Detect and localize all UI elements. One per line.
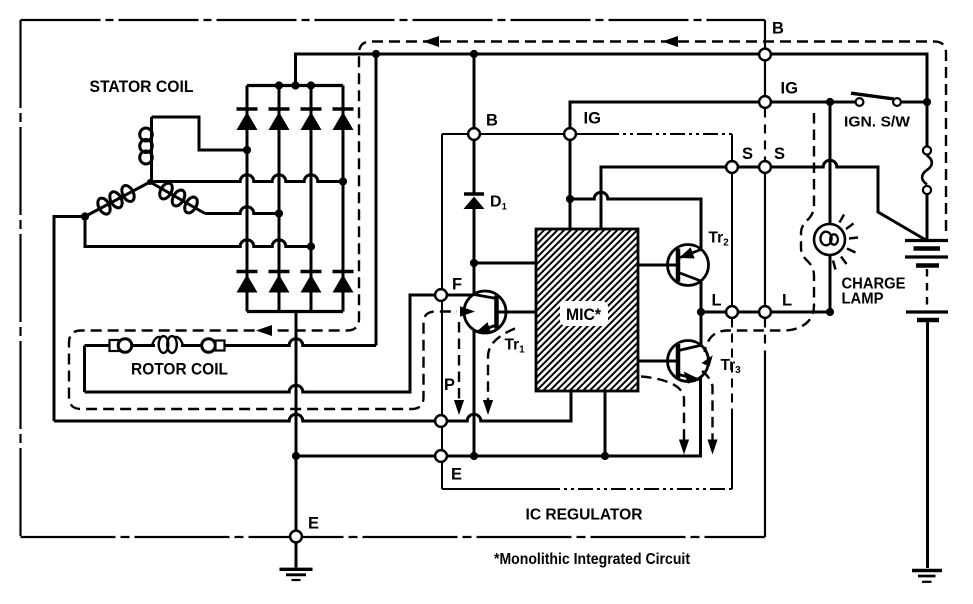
dashed lamp current through Tr3 (right branch) xyxy=(702,371,713,440)
MIC hybrid IC block U1 xyxy=(536,229,638,391)
junction MIC / E line xyxy=(601,452,609,460)
rectifier diode bottom column 4 xyxy=(333,272,354,293)
rectifier column 2 wire xyxy=(278,86,281,312)
rectifier diode top column 2 xyxy=(269,109,290,130)
wire Tr3 base to MIC xyxy=(638,360,676,363)
terminal IG (alternator) xyxy=(759,96,771,108)
junction B line / regulator B xyxy=(470,50,478,58)
junction rectifier bus col3 xyxy=(307,81,315,89)
wire Tr1 emitter to E line xyxy=(473,331,476,456)
charge lamp rays xyxy=(833,215,858,270)
rectifier diode top column 1 xyxy=(237,109,258,130)
junction B line / rotor feed xyxy=(372,50,380,58)
dashed lamp current path around charge lamp to Tr3 xyxy=(705,113,815,352)
charge lamp wire from IG junction xyxy=(829,102,832,224)
svg-text:MIC*: MIC* xyxy=(566,306,602,324)
junction rectifier bus output xyxy=(291,81,299,89)
rotor bottom wire to F terminal (hops over E drop) xyxy=(85,295,435,392)
svg-text:ROTOR COIL: ROTOR COIL xyxy=(131,360,228,379)
wire P line (hops over E drop and Tr1 emitter) xyxy=(54,391,571,421)
svg-text:*Monolithic Integrated Circuit: *Monolithic Integrated Circuit xyxy=(494,551,691,568)
node stator Y-center xyxy=(147,179,153,185)
svg-text:IC REGULATOR: IC REGULATOR xyxy=(526,507,643,524)
junction D1 / MIC pin xyxy=(470,259,478,267)
junction rectifier bus col2 xyxy=(275,81,283,89)
flow arrow to E line (left) xyxy=(679,440,689,455)
battery lower cell xyxy=(906,312,948,320)
terminal P (regulator) xyxy=(435,415,447,427)
transistor Tr3 xyxy=(668,341,709,383)
stator coil phase C (right winding) xyxy=(150,181,205,215)
transistor Tr2 xyxy=(668,245,709,286)
flow arrow down to P line (left) xyxy=(454,400,464,415)
fuse xyxy=(922,146,932,194)
svg-text:E: E xyxy=(308,515,319,533)
svg-text:L: L xyxy=(712,292,722,310)
dashed field current return (left of Tr1 emitter) xyxy=(458,322,460,400)
terminal B (regulator) xyxy=(468,128,480,140)
rectifier column 3 wire xyxy=(310,86,313,312)
battery inter-cell dashed link xyxy=(926,269,928,306)
terminal B (alternator) xyxy=(759,49,771,61)
svg-text:B: B xyxy=(486,112,498,130)
flow arrow into Tr1 xyxy=(460,306,475,316)
wire stator neutral to rectifier column 4 (hops over columns 1,2,3) xyxy=(150,175,343,182)
svg-text:STATOR COIL: STATOR COIL xyxy=(90,77,194,96)
flow arrow down to P line (right) xyxy=(483,400,493,415)
wire F terminal to Tr1 collector junction xyxy=(448,294,475,297)
dashed field current return (right of Tr1 emitter) xyxy=(488,329,515,401)
rectifier diode bottom column 3 xyxy=(301,272,322,293)
wire D1 junction to MIC left pin xyxy=(474,262,536,265)
junction L / Tr2 / Tr3 xyxy=(697,308,705,316)
flow arrow into Tr3 xyxy=(702,355,713,367)
wire B output bus from rectifier to battery feed corner xyxy=(296,54,928,102)
wire Tr2 base to MIC xyxy=(638,264,676,267)
junction neutral col4 xyxy=(339,177,347,185)
svg-text:E: E xyxy=(451,466,462,484)
dashed lamp current through Tr3 (left branch) xyxy=(641,377,684,441)
stator coil phase A (top winding) xyxy=(140,117,153,182)
svg-text:IG: IG xyxy=(781,80,798,98)
terminal S (alternator) xyxy=(759,161,771,173)
svg-text:L: L xyxy=(782,292,792,310)
junction phase C col2 xyxy=(275,209,283,217)
wire Tr3 collector up to L junction xyxy=(700,312,703,345)
wire E net: rectifier center tap down to case ground xyxy=(295,312,298,568)
dashed charging current path from battery via B line to rotor and Tr1 xyxy=(69,42,946,410)
svg-text:P: P xyxy=(444,376,455,394)
rectifier diode bottom column 2 xyxy=(269,272,290,293)
rectifier diode top column 3 xyxy=(301,109,322,130)
rectifier diode top column 4 xyxy=(333,109,354,130)
terminal IG (regulator) xyxy=(564,128,576,140)
rotor brush left (slip ring) xyxy=(110,339,132,353)
junction phase B col3 xyxy=(307,242,315,250)
rotor coil top wire with brushes xyxy=(85,344,156,347)
terminal L (regulator) xyxy=(726,306,738,318)
wire IG node to MIC top pin xyxy=(569,141,572,230)
terminal E (regulator) xyxy=(435,450,447,462)
charge lamp xyxy=(814,224,845,255)
rectifier bottom bus bar xyxy=(247,310,343,313)
rectifier top bus bar xyxy=(247,84,343,87)
wire stator phase C to rectifier column 2 (hops over column 1) xyxy=(205,207,279,214)
charge lamp wire to L line xyxy=(829,255,832,312)
junction switch / battery feed xyxy=(923,98,931,106)
wire phase-B junction to P line (left vertical) xyxy=(54,217,85,422)
junction E line / case drop xyxy=(292,452,300,460)
junction IG / Tr2 emitter xyxy=(566,195,574,203)
stator coil phase B (left winding) xyxy=(85,182,150,217)
svg-text:IG: IG xyxy=(584,110,601,128)
transistor Tr1 xyxy=(464,291,506,333)
wire switch to fuse xyxy=(926,102,929,146)
wire B line to rotor field (vertical at x=376) xyxy=(375,54,378,346)
terminal E (alternator) xyxy=(290,531,302,543)
junction IG line / lamp xyxy=(826,98,834,106)
rotor coil winding xyxy=(152,336,183,353)
terminal F (regulator) xyxy=(435,289,447,301)
wire S terminal to battery sense (hops over lamp wire) xyxy=(765,160,925,239)
rectifier column 4 wire xyxy=(342,86,345,312)
wire S terminals pair xyxy=(732,166,765,169)
ignition switch IGN. S/W xyxy=(851,93,927,106)
wire Tr2 collector down to L junction xyxy=(700,281,703,312)
IC regulator box border xyxy=(442,134,732,489)
flow arrow to E line (right) xyxy=(707,440,717,455)
wire IG line to ignition switch xyxy=(765,101,855,104)
wire B terminal through diode D1 to Tr1 collector xyxy=(473,141,476,296)
wire stator phase B to rectifier column 3 (hops over columns 1,2) xyxy=(85,217,311,247)
terminal L (alternator) xyxy=(759,306,771,318)
ground symbol at battery xyxy=(912,571,942,582)
junction phase A col1 xyxy=(243,146,251,154)
wire Tr2 emitter to IG node (hops over S wire) xyxy=(570,192,701,249)
ground symbol at alternator E terminal xyxy=(280,569,313,580)
junction phase B left xyxy=(81,212,89,220)
svg-text:IGN. S/W: IGN. S/W xyxy=(844,114,911,131)
diode D1 xyxy=(464,194,485,209)
svg-text:S: S xyxy=(742,145,753,163)
wire L line from Tr2/Tr3 junction to charge lamp xyxy=(701,311,830,314)
rectifier column 1 wire xyxy=(246,86,249,312)
wire battery negative to ground xyxy=(926,322,929,568)
wire stator phase A to rectifier column 1 xyxy=(152,117,248,150)
flow arrow on B dashed path (right) xyxy=(662,36,678,47)
wire MIC E pin to E line xyxy=(604,391,607,456)
svg-text:S: S xyxy=(774,145,785,163)
wire fuse to battery xyxy=(926,195,929,240)
svg-text:F: F xyxy=(452,276,462,294)
flow arrow on rotor dashed path xyxy=(256,325,272,336)
wire E line inside regulator xyxy=(296,378,701,456)
battery upper cell xyxy=(905,241,948,266)
svg-text:B: B xyxy=(772,20,784,38)
junction lamp / L line xyxy=(826,308,834,316)
terminal S (regulator) xyxy=(726,161,738,173)
rotor brush right (slip ring) xyxy=(202,339,225,353)
wire Tr1 base to MIC xyxy=(499,311,537,314)
wire IG terminal to regulator IG node xyxy=(570,102,855,134)
junction Tr1 emitter / E line xyxy=(470,452,478,460)
svg-text:LAMP: LAMP xyxy=(842,291,884,308)
wire B line down to regulator B terminal xyxy=(473,54,476,134)
wire S terminal to MIC top pin xyxy=(601,167,732,229)
rectifier diode bottom column 1 xyxy=(237,272,258,293)
alternator case border (dash-dot frame) xyxy=(21,20,766,537)
flow arrow on B dashed path (left) xyxy=(423,36,439,47)
rotor left edge wire xyxy=(83,346,86,393)
